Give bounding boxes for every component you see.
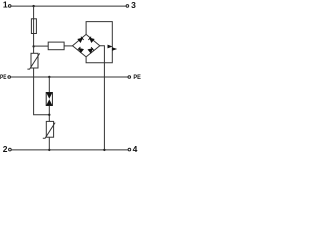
wire varistor down, crossing PE rail, to lower node bbox=[34, 68, 50, 115]
wire bridge DC loop (top vertex up, right, down through arrester, left, to bottom vertex) bbox=[86, 22, 112, 63]
svg-text:2: 2 bbox=[3, 144, 8, 154]
fuse F1 bbox=[31, 19, 36, 34]
svg-text:PE: PE bbox=[133, 74, 141, 81]
wire fuse node to varistor bbox=[33, 47, 35, 54]
wire bridge right vertex down to bottom rail bbox=[100, 46, 105, 150]
terminal PE left bbox=[8, 76, 11, 79]
node junction bottom rail left bbox=[48, 149, 50, 151]
wire PE rail bbox=[11, 76, 128, 78]
wire bottom rail (2 to 4) bbox=[11, 149, 128, 151]
svg-text:3: 3 bbox=[131, 0, 136, 10]
wire top rail (1 to 3) bbox=[11, 5, 126, 7]
spark gap arrester across bridge bbox=[108, 45, 118, 51]
diode bridge outline bbox=[73, 34, 100, 57]
svg-text:1: 1 bbox=[3, 0, 8, 9]
wire varistor to bottom rail bbox=[48, 137, 50, 150]
varistor RU2 bbox=[43, 121, 55, 138]
wire resistor to bridge left vertex bbox=[64, 45, 72, 47]
terminal 2 bbox=[9, 148, 12, 151]
terminal 3 bbox=[126, 5, 129, 8]
node junction bottom rail right bbox=[103, 149, 105, 151]
svg-text:PE: PE bbox=[0, 74, 7, 81]
diode D1 (left vertex to top vertex) bbox=[78, 37, 84, 43]
varistor RU1 bbox=[27, 53, 39, 69]
node junction PE rail to suppressor bbox=[48, 76, 50, 78]
wire suppressor to lower node bbox=[48, 106, 50, 122]
diode D3 (bottom vertex to left vertex) bbox=[78, 47, 84, 53]
node junction lower (varistor net) bbox=[48, 114, 50, 116]
node junction on top rail bbox=[32, 5, 34, 7]
resistor R1 bbox=[48, 42, 64, 50]
diode D4 (bottom vertex to right vertex) bbox=[88, 47, 94, 53]
diode D2 (right vertex to top vertex) bbox=[88, 37, 94, 43]
svg-text:4: 4 bbox=[133, 144, 138, 154]
suppressor diode (bidirectional TVS) bbox=[46, 93, 52, 106]
terminal 4 bbox=[128, 148, 131, 151]
node junction at resistor tap bbox=[32, 45, 34, 47]
wire left branch down through fuse bbox=[33, 6, 35, 46]
terminal 1 bbox=[8, 5, 11, 8]
wire PE to suppressor bbox=[48, 77, 50, 93]
terminal PE right bbox=[128, 76, 131, 79]
wire resistor tap bbox=[34, 45, 49, 47]
